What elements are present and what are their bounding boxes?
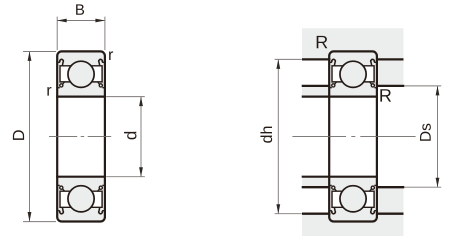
dimension d arrows xyxy=(139,97,143,107)
housing gray band top xyxy=(302,28,404,51)
shaft shoulder gray bar bottom-left xyxy=(302,177,330,188)
bearing outline background (white bore) xyxy=(57,51,105,221)
dimension Ds extension lines xyxy=(405,86,442,187)
bearing outline background (white bore) right xyxy=(329,51,377,221)
bottom ring section (mirrored) xyxy=(57,177,105,222)
label r left xyxy=(47,87,51,96)
gray slab top-right xyxy=(376,51,404,86)
top ring section xyxy=(57,51,105,96)
label R top-left xyxy=(317,36,328,48)
housing shoulder gray top-left xyxy=(302,51,330,59)
housing gray band bottom xyxy=(302,222,404,236)
shaft shoulder line top-left (Ds) xyxy=(302,85,331,87)
housing line top-right xyxy=(376,58,404,60)
ring inner face line bottom right xyxy=(302,176,378,178)
bearing outline xyxy=(57,51,105,221)
label R right xyxy=(380,89,391,101)
dimension D arrows xyxy=(28,51,32,61)
dimension Ds line xyxy=(437,86,439,187)
bottom ring section right (mirrored) xyxy=(329,177,377,222)
ring inner face line bottom xyxy=(56,176,106,178)
dimension B line xyxy=(57,20,105,22)
bearing outline right xyxy=(329,51,377,221)
ring inner face line top xyxy=(56,95,106,97)
dimension dh extension lines xyxy=(275,59,302,213)
dimension d line xyxy=(140,97,142,177)
dimension d extension lines xyxy=(106,97,145,177)
dimension B arrows xyxy=(57,19,66,23)
top ring section right xyxy=(329,51,377,96)
gray slab bottom-right xyxy=(376,187,404,221)
label D xyxy=(13,130,24,140)
dimension Ds arrows xyxy=(436,86,440,96)
dimension dh line xyxy=(277,59,279,213)
dimension D line xyxy=(29,51,31,221)
housing shoulder line bottom-left xyxy=(302,213,330,215)
housing shoulder gray bottom-left xyxy=(302,214,330,222)
shaft shoulder gray bar top-left xyxy=(302,86,330,97)
housing shoulder line top-left (dh) xyxy=(302,58,330,60)
label r top-right xyxy=(109,51,113,60)
label B xyxy=(76,4,84,14)
shaft shoulder line bottom-left xyxy=(302,186,331,188)
label Ds xyxy=(420,124,431,141)
dimension B extension lines xyxy=(57,17,105,51)
dimension D extension lines xyxy=(23,52,56,222)
center line xyxy=(49,136,111,138)
shoulder line bottom-right xyxy=(376,186,404,188)
ring inner face line top right (extends left to shaft shoulder) xyxy=(302,95,378,97)
shoulder line top-right (Ds level) xyxy=(376,85,404,87)
dimension dh arrows xyxy=(276,59,280,69)
center line right xyxy=(292,136,415,138)
label dh xyxy=(260,127,272,143)
housing line bottom-right xyxy=(376,213,404,215)
label d xyxy=(124,132,136,140)
